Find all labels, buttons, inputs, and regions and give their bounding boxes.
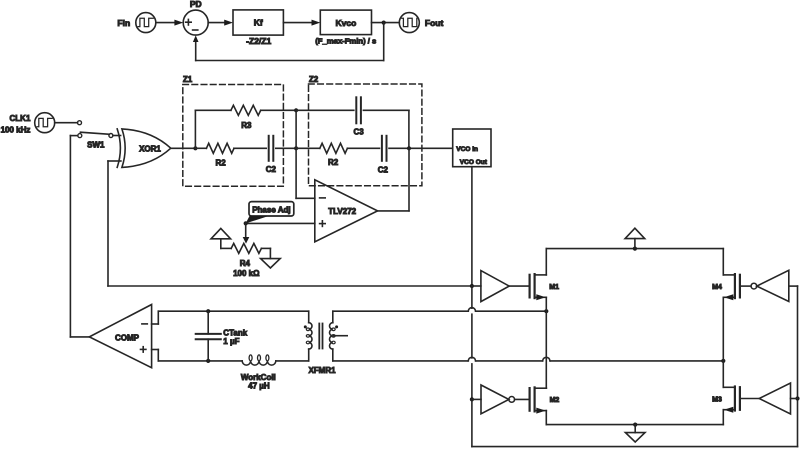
svg-text:TLV272: TLV272 xyxy=(328,207,356,216)
svg-text:XFMR1: XFMR1 xyxy=(308,366,336,375)
svg-text:R3: R3 xyxy=(241,121,252,130)
svg-text:(F_max-Fmin) / s: (F_max-Fmin) / s xyxy=(315,36,376,45)
svg-text:SW1: SW1 xyxy=(87,140,105,149)
svg-text:Fout: Fout xyxy=(425,18,444,28)
svg-text:VCO Out: VCO Out xyxy=(460,159,488,166)
svg-text:1 µF: 1 µF xyxy=(223,337,239,346)
svg-text:Z2: Z2 xyxy=(309,75,319,84)
svg-text:VCO In: VCO In xyxy=(456,146,478,153)
svg-text:C2: C2 xyxy=(378,166,389,175)
svg-text:Kvco: Kvco xyxy=(336,18,357,28)
svg-text:XOR1: XOR1 xyxy=(139,144,161,153)
svg-text:100 kHz: 100 kHz xyxy=(1,125,31,134)
svg-text:WorkCoil: WorkCoil xyxy=(241,373,276,382)
svg-text:Kf: Kf xyxy=(254,18,263,28)
svg-text:COMP: COMP xyxy=(115,333,140,342)
svg-text:Phase Adj: Phase Adj xyxy=(252,205,290,214)
svg-text:M3: M3 xyxy=(712,396,722,403)
svg-text:PD: PD xyxy=(190,0,202,9)
svg-text:R2: R2 xyxy=(215,158,226,167)
svg-text:CLK1: CLK1 xyxy=(10,114,31,123)
svg-text:M2: M2 xyxy=(550,397,560,404)
svg-text:Fin: Fin xyxy=(117,18,130,28)
svg-text:47 µH: 47 µH xyxy=(248,382,270,391)
svg-text:Z1: Z1 xyxy=(183,75,193,84)
svg-text:M1: M1 xyxy=(549,284,559,291)
svg-text:C2: C2 xyxy=(266,165,277,174)
svg-text:R2: R2 xyxy=(328,158,339,167)
svg-text:R4: R4 xyxy=(240,259,251,268)
svg-text:-Z2/Z1: -Z2/Z1 xyxy=(246,36,271,46)
svg-text:C3: C3 xyxy=(353,127,364,136)
svg-text:100 kΩ: 100 kΩ xyxy=(233,269,260,278)
svg-text:M4: M4 xyxy=(712,284,722,291)
